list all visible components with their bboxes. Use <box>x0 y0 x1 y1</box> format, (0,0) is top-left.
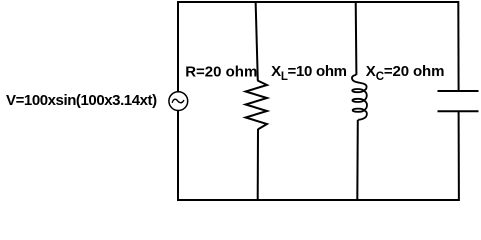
svg-text:R=20 ohm: R=20 ohm <box>185 64 257 81</box>
wire resistor branch upper <box>256 1 258 81</box>
wire inductor branch upper <box>355 1 358 75</box>
wire top bus <box>178 1 458 3</box>
wire resistor branch lower <box>257 129 259 201</box>
wire inductor branch lower <box>356 120 359 201</box>
wire left branch upper <box>177 1 179 91</box>
capacitor C bottom plate <box>438 110 479 112</box>
svg-text:XL=10 ohm: XL=10 ohm <box>271 63 347 83</box>
capacitor C top plate <box>438 90 479 92</box>
wire capacitor branch lower <box>458 112 460 201</box>
svg-text:V=100xsin(100x3.14xt): V=100xsin(100x3.14xt) <box>6 92 157 109</box>
wire capacitor branch upper <box>457 1 459 90</box>
svg-text:XC=20 ohm: XC=20 ohm <box>366 63 445 83</box>
resistor R <box>246 81 267 130</box>
AC source V1 <box>169 92 188 111</box>
wire left branch lower <box>177 111 179 201</box>
inductor L coil <box>352 75 367 120</box>
wire bottom bus <box>178 199 458 201</box>
